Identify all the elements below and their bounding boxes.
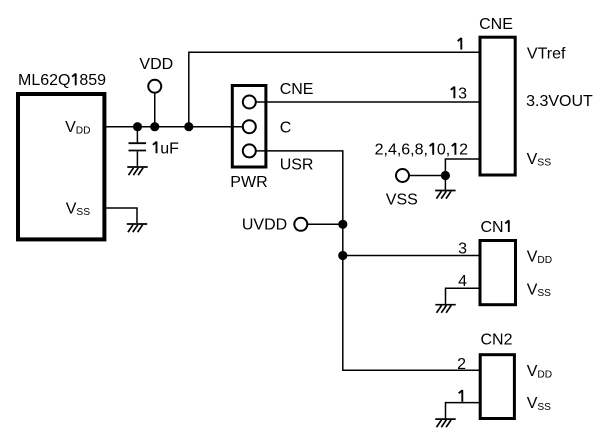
wire: CN1 pin 4 to ground <box>446 288 481 304</box>
svg-text:4: 4 <box>458 273 467 290</box>
svg-text:859: 859 <box>79 72 106 89</box>
ground (CN1 pin 4) <box>435 305 455 313</box>
svg-text:VDD: VDD <box>65 119 90 137</box>
VDD supply terminal circle <box>148 80 161 93</box>
svg-text:2: 2 <box>457 356 466 373</box>
IC U1 ML62Q1859 box <box>18 94 104 239</box>
svg-text:VSS: VSS <box>527 395 551 413</box>
VSS terminal circle <box>396 169 409 182</box>
svg-text:USR: USR <box>280 156 314 173</box>
connector CNE box <box>480 37 515 175</box>
connector CN2 box <box>480 355 514 419</box>
svg-text:CN2: CN2 <box>480 332 512 349</box>
svg-text:VSS: VSS <box>386 192 418 209</box>
junction dot at CN1 tap <box>338 251 347 260</box>
junction dot at UVDD tap <box>338 220 347 229</box>
svg-text:uF: uF <box>160 140 179 157</box>
svg-text:VDD: VDD <box>139 56 173 73</box>
svg-text:PWR: PWR <box>230 174 267 191</box>
ground (capacitor) <box>127 167 147 175</box>
pin number 13 (CNE) <box>451 87 455 99</box>
svg-text:3: 3 <box>458 85 467 102</box>
PWR pin circle C <box>243 120 256 133</box>
label 1uF <box>153 142 157 154</box>
wire: PWR pin CNE to CNE pin 13 <box>256 101 480 103</box>
capacitor C1 1uF <box>129 127 147 167</box>
ground (U1 VSS) <box>127 224 147 232</box>
svg-text:3.3VOUT: 3.3VOUT <box>526 93 593 110</box>
svg-text:CNE: CNE <box>280 81 314 98</box>
svg-text:VSS: VSS <box>527 151 552 169</box>
connector PWR box <box>232 86 266 168</box>
UVDD terminal circle <box>294 218 307 231</box>
svg-text:VTref: VTref <box>527 46 566 63</box>
PWR pin circle CNE <box>243 96 256 109</box>
wire: riser to CNE pin 1 <box>189 52 480 126</box>
wire: PWR pin USR to CN2 pin 2 <box>256 151 480 370</box>
svg-text:3: 3 <box>458 241 467 258</box>
svg-text:CNE: CNE <box>479 16 513 33</box>
svg-text:VDD: VDD <box>527 363 552 381</box>
wire: CN1 pin 3 branch <box>343 255 480 257</box>
junction dot at C1 tap <box>133 122 142 131</box>
ground (VSS net) <box>435 191 455 199</box>
svg-text:UVDD: UVDD <box>242 217 287 234</box>
junction dot at riser tap <box>184 122 193 131</box>
svg-text:ML62Q: ML62Q <box>18 72 70 89</box>
svg-text:2: 2 <box>459 142 468 159</box>
wire: VSS circle to CNE VSS pins <box>409 159 480 190</box>
wire: VDD stem <box>154 93 156 127</box>
wire: CN2 pin 1 to ground <box>446 403 481 419</box>
PWR pin circle USR <box>243 144 256 157</box>
wire: UVDD branch <box>307 223 343 225</box>
svg-text:VDD: VDD <box>527 249 552 267</box>
junction dot at VSS ground tap <box>441 171 450 180</box>
svg-text:0,: 0, <box>437 142 450 159</box>
pin number 1 (CN2) <box>459 390 463 402</box>
ground (CN2 pin 1) <box>435 419 455 427</box>
wire: U1 VDD to PWR pin C <box>105 126 243 128</box>
junction dot at VDD tap <box>150 122 159 131</box>
pin number 1 (CNE) <box>458 38 462 50</box>
wire: U1 VSS to ground <box>105 208 138 223</box>
svg-text:C: C <box>280 119 292 136</box>
svg-text:2,4,6,8,: 2,4,6,8, <box>375 142 428 159</box>
svg-text:VSS: VSS <box>527 281 551 299</box>
svg-text:VSS: VSS <box>66 201 90 219</box>
connector CN1 box <box>480 241 516 305</box>
svg-text:CN: CN <box>481 219 504 236</box>
